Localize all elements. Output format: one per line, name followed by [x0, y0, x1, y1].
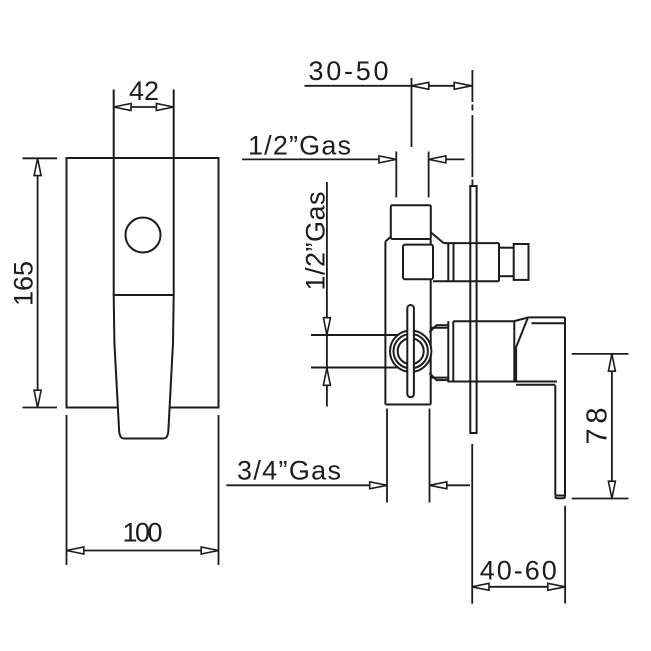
svg-text:3/4”Gas: 3/4”Gas — [237, 456, 341, 486]
svg-text:42: 42 — [129, 76, 159, 106]
svg-text:1/2”Gas: 1/2”Gas — [248, 131, 351, 161]
svg-text:100: 100 — [123, 518, 163, 548]
svg-text:165: 165 — [9, 261, 39, 306]
svg-text:30-50: 30-50 — [309, 56, 389, 86]
svg-text:1/2”Gas: 1/2”Gas — [301, 192, 331, 291]
svg-text:40-60: 40-60 — [480, 556, 557, 586]
svg-text:78: 78 — [582, 408, 614, 445]
